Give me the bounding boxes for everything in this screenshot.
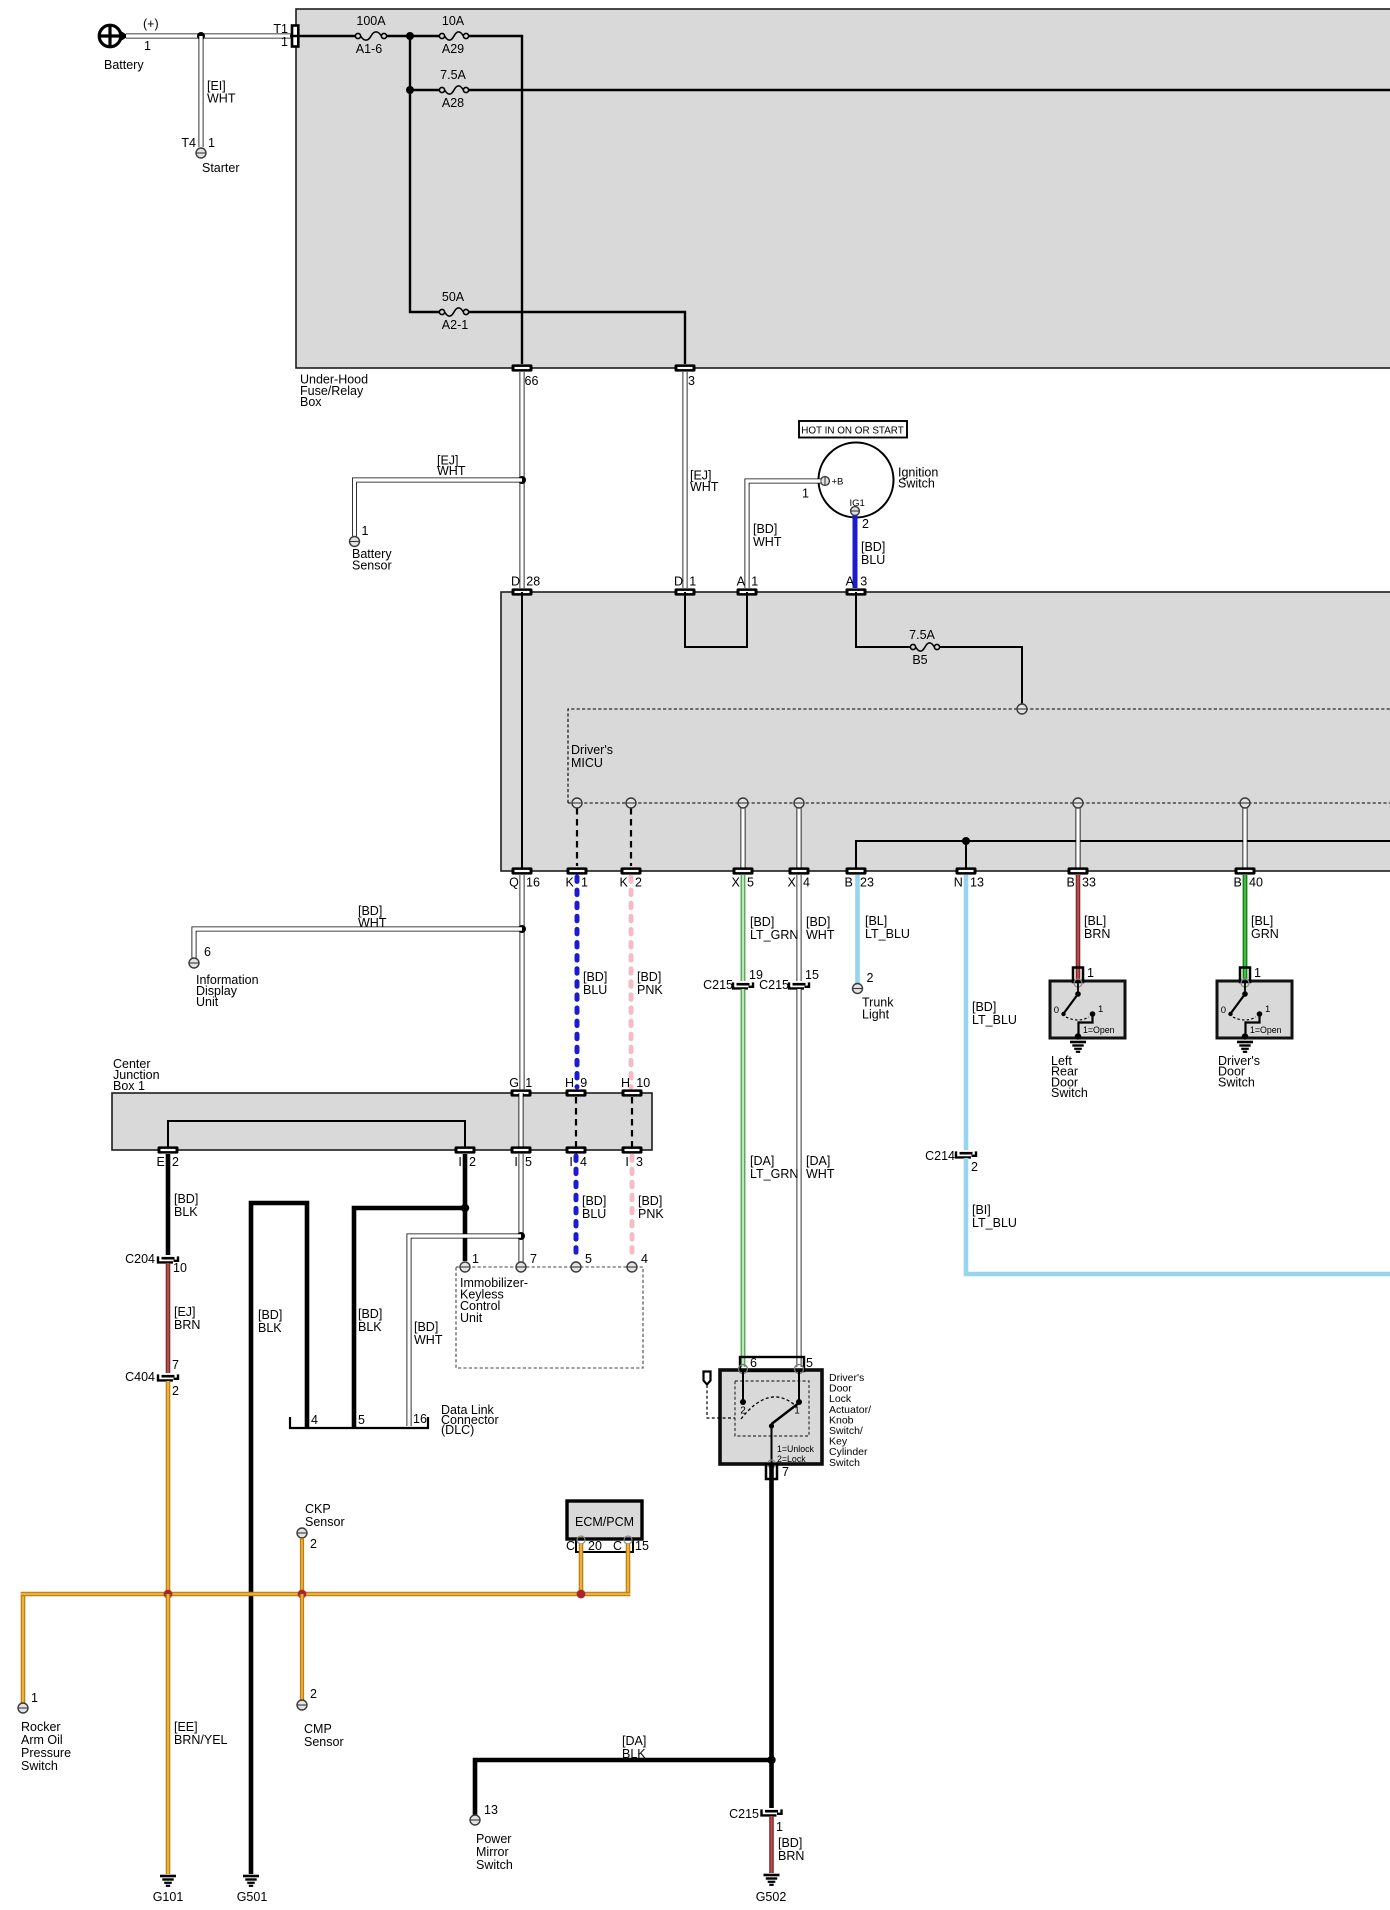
svg-text:9: 9 xyxy=(580,1076,587,1090)
svg-text:WHT: WHT xyxy=(753,535,782,549)
svg-text:100A: 100A xyxy=(356,14,386,28)
svg-text:Box 1: Box 1 xyxy=(113,1079,145,1093)
svg-text:N: N xyxy=(954,876,963,890)
svg-text:C214: C214 xyxy=(925,1149,955,1163)
svg-text:Light: Light xyxy=(862,1008,890,1022)
svg-text:10: 10 xyxy=(173,1261,187,1275)
svg-text:X: X xyxy=(731,876,740,890)
svg-text:13: 13 xyxy=(970,876,984,890)
svg-text:[BD]: [BD] xyxy=(753,522,777,536)
svg-text:1: 1 xyxy=(751,575,758,589)
svg-text:0: 0 xyxy=(1054,1005,1059,1016)
svg-text:WHT: WHT xyxy=(358,916,387,930)
svg-text:[BL]: [BL] xyxy=(865,914,887,928)
svg-text:[BL]: [BL] xyxy=(1251,914,1273,928)
svg-text:[BD]: [BD] xyxy=(750,915,774,929)
svg-text:C: C xyxy=(613,1539,622,1553)
svg-text:7: 7 xyxy=(782,1465,789,1479)
svg-text:1: 1 xyxy=(1265,1004,1270,1015)
svg-text:WHT: WHT xyxy=(806,928,835,942)
svg-text:Switch: Switch xyxy=(898,477,935,491)
svg-text:BRN/YEL: BRN/YEL xyxy=(174,1733,228,1747)
svg-text:BLU: BLU xyxy=(861,553,885,567)
svg-text:16: 16 xyxy=(526,876,540,890)
svg-text:13: 13 xyxy=(484,1803,498,1817)
svg-text:1: 1 xyxy=(1087,966,1094,980)
svg-text:1: 1 xyxy=(776,1820,783,1834)
svg-text:3: 3 xyxy=(688,374,695,388)
svg-text:MICU: MICU xyxy=(571,756,603,770)
svg-text:WHT: WHT xyxy=(414,1333,443,1347)
svg-text:C: C xyxy=(566,1539,575,1553)
svg-text:[BD]: [BD] xyxy=(258,1308,282,1322)
svg-text:Rocker: Rocker xyxy=(21,1720,61,1734)
svg-text:I: I xyxy=(569,1155,572,1169)
svg-text:5: 5 xyxy=(525,1155,532,1169)
svg-text:I: I xyxy=(514,1155,517,1169)
svg-text:+B: +B xyxy=(832,476,844,487)
svg-text:Sensor: Sensor xyxy=(304,1735,344,1749)
svg-text:A2-1: A2-1 xyxy=(442,318,468,332)
svg-text:40: 40 xyxy=(1249,876,1263,890)
svg-text:1=Open: 1=Open xyxy=(1250,1025,1282,1035)
svg-text:Pressure: Pressure xyxy=(21,1746,71,1760)
svg-text:Unit: Unit xyxy=(196,995,219,1009)
svg-text:Switch: Switch xyxy=(21,1759,58,1773)
svg-text:Battery: Battery xyxy=(104,58,144,72)
svg-text:1=Unlock: 1=Unlock xyxy=(777,1444,815,1454)
svg-text:BLK: BLK xyxy=(258,1321,282,1335)
svg-text:A1-6: A1-6 xyxy=(356,42,382,56)
svg-text:LT_BLU: LT_BLU xyxy=(972,1216,1017,1230)
svg-text:I: I xyxy=(625,1155,628,1169)
svg-text:2: 2 xyxy=(867,971,874,985)
svg-text:Switch: Switch xyxy=(1218,1075,1255,1089)
svg-text:7: 7 xyxy=(530,1252,537,1266)
svg-text:BRN: BRN xyxy=(778,1849,804,1863)
svg-text:G: G xyxy=(509,1076,519,1090)
svg-text:PNK: PNK xyxy=(638,1207,664,1221)
svg-text:6: 6 xyxy=(204,945,211,959)
svg-text:LT_GRN: LT_GRN xyxy=(750,928,798,942)
svg-text:CMP: CMP xyxy=(304,1722,332,1736)
svg-text:A28: A28 xyxy=(442,96,464,110)
svg-text:T4: T4 xyxy=(181,136,196,150)
svg-text:[DA]: [DA] xyxy=(622,1734,646,1748)
svg-text:LT_BLU: LT_BLU xyxy=(865,927,910,941)
svg-text:1: 1 xyxy=(689,575,696,589)
svg-text:B5: B5 xyxy=(912,653,927,667)
svg-text:3: 3 xyxy=(636,1155,643,1169)
svg-text:B: B xyxy=(1066,876,1074,890)
svg-text:[BD]: [BD] xyxy=(778,1836,802,1850)
svg-text:Driver's: Driver's xyxy=(571,743,613,757)
svg-text:Arm Oil: Arm Oil xyxy=(21,1733,63,1747)
svg-text:2: 2 xyxy=(172,1155,179,1169)
svg-text:1: 1 xyxy=(525,1076,532,1090)
svg-text:Box: Box xyxy=(300,395,322,409)
svg-text:LT_GRN: LT_GRN xyxy=(750,1167,798,1181)
svg-text:G101: G101 xyxy=(153,1890,184,1904)
svg-text:BLU: BLU xyxy=(582,1207,606,1221)
svg-text:E: E xyxy=(156,1155,164,1169)
svg-text:I: I xyxy=(458,1155,461,1169)
svg-text:5: 5 xyxy=(358,1413,365,1427)
svg-text:H: H xyxy=(621,1076,630,1090)
svg-text:1: 1 xyxy=(362,524,369,538)
svg-text:HOT IN ON OR START: HOT IN ON OR START xyxy=(801,426,904,437)
svg-text:A29: A29 xyxy=(442,42,464,56)
svg-text:[BD]: [BD] xyxy=(806,915,830,929)
svg-text:2: 2 xyxy=(740,1406,746,1417)
svg-text:B: B xyxy=(844,876,852,890)
svg-text:Unit: Unit xyxy=(460,1311,483,1325)
svg-text:A: A xyxy=(846,575,855,589)
svg-text:BRN: BRN xyxy=(1084,927,1110,941)
svg-text:Mirror: Mirror xyxy=(476,1845,509,1859)
svg-text:66: 66 xyxy=(525,374,539,388)
svg-text:6: 6 xyxy=(750,1356,757,1370)
svg-text:Switch: Switch xyxy=(1051,1086,1088,1100)
svg-text:Starter: Starter xyxy=(202,161,240,175)
svg-text:1: 1 xyxy=(31,1691,38,1705)
svg-text:5: 5 xyxy=(585,1252,592,1266)
svg-text:4: 4 xyxy=(641,1252,648,1266)
svg-text:2=Lock: 2=Lock xyxy=(777,1454,806,1464)
svg-text:33: 33 xyxy=(1082,876,1096,890)
svg-text:C215: C215 xyxy=(703,978,733,992)
svg-text:BLK: BLK xyxy=(622,1747,646,1761)
svg-text:4: 4 xyxy=(311,1413,318,1427)
svg-text:10A: 10A xyxy=(442,14,465,28)
svg-text:WHT: WHT xyxy=(690,480,719,494)
svg-text:[BD]: [BD] xyxy=(358,1307,382,1321)
svg-text:(DLC): (DLC) xyxy=(441,1423,474,1437)
svg-text:Switch: Switch xyxy=(476,1858,513,1872)
svg-text:H: H xyxy=(565,1076,574,1090)
svg-text:X: X xyxy=(787,876,796,890)
svg-text:G502: G502 xyxy=(756,1890,787,1904)
svg-text:1: 1 xyxy=(581,876,588,890)
svg-text:CKP: CKP xyxy=(305,1502,331,1516)
svg-text:C404: C404 xyxy=(125,1370,155,1384)
svg-text:2: 2 xyxy=(971,1160,978,1174)
svg-text:4: 4 xyxy=(580,1155,587,1169)
svg-text:1=Open: 1=Open xyxy=(1083,1025,1115,1035)
svg-text:WHT: WHT xyxy=(437,464,466,478)
svg-text:7.5A: 7.5A xyxy=(440,68,466,82)
svg-text:LT_BLU: LT_BLU xyxy=(972,1013,1017,1027)
svg-text:2: 2 xyxy=(862,517,869,531)
svg-text:Sensor: Sensor xyxy=(305,1515,345,1529)
svg-text:PNK: PNK xyxy=(637,983,663,997)
svg-text:1: 1 xyxy=(144,39,151,53)
svg-text:1: 1 xyxy=(802,487,809,501)
svg-text:7: 7 xyxy=(172,1358,179,1372)
svg-text:[DA]: [DA] xyxy=(806,1154,830,1168)
svg-text:[BL]: [BL] xyxy=(1084,914,1106,928)
svg-text:2: 2 xyxy=(310,1687,317,1701)
svg-text:[BD]: [BD] xyxy=(174,1192,198,1206)
svg-text:B: B xyxy=(1233,876,1241,890)
svg-text:[BD]: [BD] xyxy=(583,970,607,984)
svg-text:K: K xyxy=(619,876,628,890)
svg-text:20: 20 xyxy=(588,1539,602,1553)
svg-text:16: 16 xyxy=(413,1412,427,1426)
svg-text:0: 0 xyxy=(1221,1005,1226,1016)
svg-text:2: 2 xyxy=(469,1155,476,1169)
svg-text:2: 2 xyxy=(310,1537,317,1551)
svg-text:WHT: WHT xyxy=(207,92,236,106)
svg-text:A: A xyxy=(737,575,746,589)
svg-text:[BI]: [BI] xyxy=(972,1203,991,1217)
svg-text:28: 28 xyxy=(526,575,540,589)
svg-text:15: 15 xyxy=(635,1539,649,1553)
svg-text:[BD]: [BD] xyxy=(637,970,661,984)
svg-text:[BD]: [BD] xyxy=(638,1194,662,1208)
svg-text:C204: C204 xyxy=(125,1252,155,1266)
svg-text:2: 2 xyxy=(635,876,642,890)
svg-text:Switch: Switch xyxy=(829,1457,860,1469)
svg-text:C215: C215 xyxy=(759,978,789,992)
svg-text:C215: C215 xyxy=(729,1807,759,1821)
svg-text:[DA]: [DA] xyxy=(750,1154,774,1168)
svg-text:[BD]: [BD] xyxy=(861,540,885,554)
svg-text:K: K xyxy=(565,876,574,890)
svg-text:10: 10 xyxy=(636,1076,650,1090)
svg-text:1: 1 xyxy=(472,1252,479,1266)
svg-text:2: 2 xyxy=(172,1384,179,1398)
svg-text:[EE]: [EE] xyxy=(174,1720,198,1734)
svg-text:Power: Power xyxy=(476,1832,511,1846)
svg-text:1: 1 xyxy=(1254,966,1261,980)
svg-text:BLU: BLU xyxy=(583,983,607,997)
svg-text:15: 15 xyxy=(805,968,819,982)
svg-text:7.5A: 7.5A xyxy=(909,628,935,642)
svg-text:GRN: GRN xyxy=(1251,927,1279,941)
svg-text:T1: T1 xyxy=(273,22,288,36)
svg-text:Sensor: Sensor xyxy=(352,559,392,573)
svg-text:D: D xyxy=(511,575,520,589)
svg-text:D: D xyxy=(674,575,683,589)
svg-text:4: 4 xyxy=(803,876,810,890)
svg-text:G501: G501 xyxy=(237,1890,268,1904)
svg-text:BLK: BLK xyxy=(358,1320,382,1334)
svg-text:WHT: WHT xyxy=(806,1167,835,1181)
svg-text:5: 5 xyxy=(747,876,754,890)
svg-text:5: 5 xyxy=(806,1356,813,1370)
svg-text:[BD]: [BD] xyxy=(972,1000,996,1014)
svg-text:1: 1 xyxy=(281,35,288,49)
svg-text:23: 23 xyxy=(860,876,874,890)
svg-text:[BD]: [BD] xyxy=(582,1194,606,1208)
svg-text:Q: Q xyxy=(509,876,519,890)
svg-text:BLK: BLK xyxy=(174,1205,198,1219)
svg-text:(+): (+) xyxy=(143,17,159,31)
svg-text:BRN: BRN xyxy=(174,1318,200,1332)
svg-text:50A: 50A xyxy=(442,290,465,304)
svg-text:1: 1 xyxy=(208,136,215,150)
svg-text:[BD]: [BD] xyxy=(414,1320,438,1334)
svg-text:1: 1 xyxy=(1098,1004,1103,1015)
svg-text:ECM/PCM: ECM/PCM xyxy=(575,1515,634,1529)
svg-text:3: 3 xyxy=(860,575,867,589)
svg-text:[EJ]: [EJ] xyxy=(174,1305,196,1319)
